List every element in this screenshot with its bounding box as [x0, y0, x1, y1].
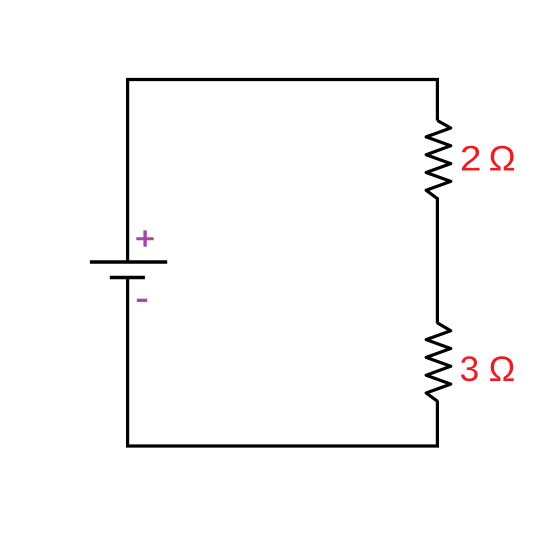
svg-text:2: 2 [460, 138, 482, 178]
svg-text:Ω: Ω [489, 139, 516, 179]
battery V1 positive plate (long) [90, 260, 167, 264]
wire: right-bottom lead, bottom wire, left wire lower (from battery - plate) [128, 278, 438, 447]
resistor R1 (2 ohm) zigzag [426, 121, 451, 199]
battery minus sign [137, 299, 147, 302]
battery plus sign [136, 230, 153, 246]
resistor R2 (3 ohm) zigzag [426, 323, 451, 401]
svg-text:3: 3 [460, 350, 480, 389]
battery V1 negative plate (short) [110, 276, 145, 280]
wire: top-right lead, top wire, left wire upper (to battery + plate) [128, 80, 438, 263]
svg-text:Ω: Ω [489, 349, 516, 389]
wire: right side between resistors [436, 198, 439, 324]
